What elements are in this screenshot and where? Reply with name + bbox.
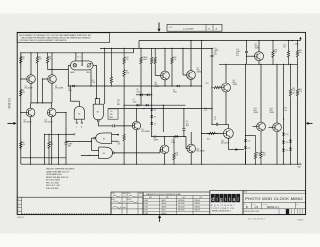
- ground net label: [298, 163, 302, 169]
- wire FF to E4 path: [66, 140, 91, 142]
- capacitor C18 label: [117, 100, 120, 106]
- junction Q8 em y124.3: [225, 124, 226, 125]
- junction x151.7 y94.8: [151, 94, 152, 95]
- diode D11: [244, 139, 250, 142]
- transistor Q7m: [187, 68, 202, 80]
- junction Q4 emitter bus: [51, 164, 52, 165]
- wire x58.6 drop: [58, 134, 60, 164]
- junction x172 rail: [171, 48, 172, 49]
- junction x292.4 rail C: [292, 40, 293, 41]
- wire E3 out: [91, 137, 93, 139]
- junction Q11 emitter bus: [191, 164, 192, 165]
- resistor R41 label: [263, 152, 266, 156]
- diode D8: [140, 94, 142, 97]
- junction FF path x66: [65, 141, 66, 142]
- junction rail Q2 col: [51, 52, 52, 53]
- junction x111.4 rail B: [111, 48, 112, 49]
- wire x104.7 drop: [104, 48, 106, 104]
- wire Q1 emitter drop: [30, 83, 32, 103]
- diode D16: [289, 140, 292, 142]
- diode D7: [175, 135, 177, 138]
- wire Q3 emitter: [30, 117, 32, 164]
- junction x212 y87.5: [211, 87, 212, 88]
- right fold-mark arrow: [306, 122, 313, 125]
- junction rail Q1 col: [30, 52, 31, 53]
- wire ground bus: [21, 163, 302, 165]
- junction Q3 emitter bus: [30, 164, 31, 165]
- wire Q13 collector: [260, 64, 262, 122]
- wire x183 drop: [182, 48, 184, 75]
- junction pin stub x66: [65, 134, 66, 135]
- junction rail R4: [37, 52, 38, 53]
- svg-text:ECO: ECO: [169, 27, 173, 29]
- wire diode stack x151.7: [151, 105, 153, 136]
- junction x297.5 rail C: [297, 40, 298, 41]
- junction x297.5 bus: [297, 164, 298, 165]
- junction x290.5 bus: [290, 164, 291, 165]
- junction x201.6 bus: [201, 164, 202, 165]
- resistor R4: [36, 53, 42, 103]
- wire rail C-B jog at x139: [138, 41, 140, 49]
- wire Q14 base stub: [269, 126, 273, 128]
- resistor R16: [171, 48, 177, 66]
- junction R7 top: [48, 134, 49, 135]
- resistor R3: [20, 53, 26, 67]
- resistor R27 label: [285, 108, 288, 112]
- junction Q6 emitter y86: [164, 85, 165, 86]
- transistor Q2: [48, 75, 63, 90]
- wire x297.5 lower: [297, 100, 299, 164]
- junction x201.6 y86: [201, 85, 202, 86]
- wire Q10 collector: [164, 136, 166, 145]
- gate E3 (NAND left): [94, 133, 112, 144]
- junction x58.6 y134.3: [58, 134, 59, 135]
- junction Q2 base x42.5: [42, 78, 43, 79]
- wire Q10 base link: [159, 149, 161, 153]
- capacitor C4: [113, 124, 114, 127]
- junction x44.6 y134.3: [44, 134, 45, 135]
- capacitor C8: [214, 117, 218, 126]
- junction x104.7 y86: [104, 85, 105, 86]
- wire Q13 base stub: [253, 126, 257, 128]
- junction x283.5 y119: [283, 118, 284, 119]
- junction lamp rail 1: [75, 52, 76, 53]
- wire x212 feed: [211, 57, 213, 124]
- wire C3 lower lead: [183, 131, 185, 137]
- resistor R14: [145, 48, 153, 66]
- wire E2 out to C4: [98, 125, 112, 127]
- junction Q14 rail D: [276, 64, 277, 65]
- wire Q12 emitter: [227, 138, 229, 149]
- junction Q6 collector rail: [164, 48, 165, 49]
- resistor R17: [206, 83, 222, 88]
- wire Q9 base: [247, 55, 255, 57]
- wire E2 top pin 1: [94, 99, 96, 105]
- junction x290.5 rail D: [290, 64, 291, 65]
- wire Q1 collector feed: [30, 53, 32, 75]
- resistor R11: [173, 136, 179, 164]
- junction Q5 collector top: [136, 108, 137, 109]
- wire x124.1 to bus: [123, 145, 125, 164]
- junction stack bottom: [151, 136, 152, 137]
- resistor R6 label: [92, 80, 95, 84]
- wire diode line y136.4: [152, 135, 186, 137]
- wire Q5 collector: [135, 109, 137, 122]
- junction lamp-cell mid: [82, 65, 83, 66]
- resistor R9b: [123, 66, 129, 80]
- resistor R25 label: [299, 50, 302, 54]
- diode D1 label: [133, 99, 137, 103]
- resistor R19: [254, 136, 256, 165]
- wire R19 feed: [246, 135, 256, 137]
- diode D12: [244, 146, 250, 149]
- junction x141 rail: [140, 48, 141, 49]
- wire x44.6 drop: [44, 134, 46, 164]
- wire Q10 emitter: [164, 154, 166, 165]
- transistor Q10: [154, 136, 169, 154]
- wire Q5 emitter: [135, 130, 137, 164]
- junction C15 rail C: [246, 40, 247, 41]
- wire E1 out drop: [69, 86, 71, 101]
- diode D4: [150, 108, 156, 111]
- wire diode line y105.2: [124, 104, 185, 106]
- gate E4 (NAND right): [99, 147, 115, 159]
- diode D1: [137, 104, 139, 107]
- junction x245.5 bus: [245, 164, 246, 165]
- junction Q8 rail D: [225, 64, 226, 65]
- wire x124.1 main drop: [123, 80, 125, 131]
- wire Q12 base line: [202, 132, 224, 134]
- wire E1 output horiz: [70, 100, 79, 102]
- transistor Q11: [187, 144, 205, 153]
- wire Q11 collector: [190, 132, 192, 144]
- wire lamp top lead 1: [75, 53, 77, 61]
- wire left rail drop: [20, 53, 22, 164]
- junction FF path x91.4: [91, 141, 92, 142]
- wire cross bus y102.9: [31, 102, 52, 104]
- wire Q14 emitter: [276, 132, 278, 165]
- junction x283.5 rail D: [283, 64, 284, 65]
- wire Q4 emitter: [51, 117, 53, 164]
- junction x141 y94.8: [140, 94, 141, 95]
- wire x245.5 column: [245, 64, 247, 164]
- wire x283.5 lower: [283, 131, 285, 164]
- junction x111.4 y86: [111, 85, 112, 86]
- junction x124.1 bus: [124, 164, 125, 165]
- junction R23 rail D: [272, 64, 273, 65]
- resistor R41: [260, 131, 262, 164]
- wire x172 drop: [171, 66, 173, 86]
- wire rail A-B jog: [133, 48, 135, 52]
- photocell V1: [86, 63, 91, 74]
- wire cross-couple x42.5: [42, 79, 44, 103]
- capacitor C4 boxed label: [108, 109, 118, 119]
- transistor Q9: [255, 44, 264, 61]
- wire Q12 output arrow: [228, 148, 244, 151]
- signature block: [111, 192, 143, 215]
- wire Q9 emitter: [258, 61, 260, 65]
- proprietary notice box: [17, 33, 109, 43]
- junction square E3 in1: [117, 134, 119, 136]
- junction Q4 emitter lower bus: [51, 157, 52, 158]
- wire rail B (center): [100, 47, 213, 49]
- junction Q13 rail D: [260, 64, 261, 65]
- wire lamp top lead 2: [81, 53, 83, 66]
- capacitor C15 label: [236, 49, 240, 57]
- wire x297.5 upper: [297, 41, 299, 48]
- wire Q3 base: [21, 112, 27, 114]
- diode D7 label: [172, 140, 176, 144]
- wire x151.7 drop: [151, 66, 153, 105]
- gate E2 (NAND down): [93, 104, 103, 122]
- junction E1 y86: [70, 85, 71, 86]
- junction R11 top: [173, 136, 174, 137]
- capacitor C3: [182, 121, 190, 130]
- wire y69.6 to lamp: [48, 69, 69, 71]
- diode D2: [146, 104, 148, 107]
- junction x172 y86: [171, 85, 172, 86]
- wire x245.5 lower: [245, 152, 247, 165]
- junction C3 bottom: [183, 136, 184, 137]
- junction x201.6 rail C: [201, 40, 202, 41]
- revision table: [17, 197, 111, 215]
- junction R11 bus: [173, 164, 174, 165]
- pin A of E1: [81, 119, 83, 128]
- wire E3 in1: [112, 134, 118, 136]
- diode D5: [150, 115, 156, 118]
- capacitor C15: [245, 51, 248, 52]
- junction rail R5: [47, 52, 48, 53]
- resistor R18 label: [204, 108, 208, 112]
- top fold-mark arrow: [158, 23, 161, 33]
- junction y108.6 x201: [201, 108, 202, 109]
- wire Q7m collector: [190, 41, 192, 71]
- junction x104.7 rail B: [104, 48, 105, 49]
- junction lamp left y86: [68, 85, 69, 86]
- wire Q10 base: [159, 148, 161, 150]
- wire C3 upper lead: [183, 109, 185, 129]
- wire lower bus (left): [21, 157, 66, 159]
- diode D13: [282, 133, 288, 136]
- junction Q5 emitter bus: [136, 164, 137, 165]
- wire Q8 emitter: [225, 92, 227, 124]
- diode D2b: [72, 85, 74, 88]
- wire x212 feed upper: [211, 48, 213, 55]
- junction Q7m rail C: [190, 40, 191, 41]
- wire y134.3 link: [45, 133, 66, 135]
- diode D6: [150, 122, 156, 125]
- junction x141 y105.2: [140, 105, 141, 106]
- wire E2 output: [97, 122, 99, 126]
- resistor C16: [283, 41, 290, 65]
- junction y108.6 x163: [163, 108, 164, 109]
- transistor Q5c: [132, 121, 149, 133]
- resistor R20: [207, 132, 218, 140]
- junction x212 y124.3: [211, 124, 212, 125]
- photo module CL1 enclosure: [70, 61, 93, 70]
- resistor R15: [154, 48, 156, 66]
- svg-text:MM02: MM02: [8, 98, 12, 109]
- wire x290.5 lower: [290, 137, 292, 164]
- junction x44.6 bus: [44, 164, 45, 165]
- wire E3 out drop: [90, 138, 92, 150]
- wire x66 drop: [65, 113, 67, 165]
- diode D2b label: [68, 88, 72, 92]
- wire Q8 collector: [225, 64, 227, 83]
- junction x124.1 base line: [124, 125, 125, 126]
- transistor Q1: [25, 75, 36, 90]
- wire Q11 base drop: [185, 136, 187, 148]
- wire Q5 base feed: [155, 75, 161, 77]
- svg-text:DRB 102: DRB 102: [17, 217, 24, 219]
- wire E4 in2: [81, 154, 99, 156]
- capacitor C14: [211, 48, 220, 57]
- junction Q9 rail C: [258, 40, 259, 41]
- wire Q3 collector: [30, 103, 32, 108]
- junction Q7m emitter y86: [190, 85, 191, 86]
- wire Q11 emitter: [190, 153, 192, 164]
- diode D3 label: [173, 90, 177, 94]
- wire Q2 collector feed: [51, 53, 53, 75]
- wire E1 output: [78, 101, 80, 106]
- diode D17: [289, 148, 292, 150]
- junction lamp rail 2: [82, 52, 83, 53]
- terminal pin F: [66, 134, 75, 136]
- wire cell right lead: [93, 64, 96, 66]
- resistor R21 label: [292, 88, 296, 94]
- wire diode line y94.8: [136, 94, 152, 96]
- junction y108.6 x144: [143, 108, 144, 109]
- junction x212 rail B: [211, 48, 212, 49]
- junction x124.1 y105.2: [124, 105, 125, 106]
- junction C16 rail C: [288, 40, 289, 41]
- junction cell bottom y86: [90, 85, 91, 86]
- capacitor C6: [65, 143, 68, 144]
- wire Q7m emitter: [190, 79, 192, 86]
- capacitor C6 label: [68, 141, 74, 147]
- junction x283.5 bus: [283, 164, 284, 165]
- junction y108.6 x212: [211, 108, 212, 109]
- junction x58.6 bus: [58, 164, 59, 165]
- junction x201.6 y133.4: [201, 133, 202, 134]
- wire C4 to Q5 base: [115, 125, 133, 127]
- svg-text:1-5A Ph: 1-5A Ph: [297, 219, 304, 222]
- junction E4 in2: [89, 155, 90, 156]
- resistor R19 label: [257, 152, 260, 156]
- junction x66 bus: [65, 164, 66, 165]
- junction y102.9 x37.4: [37, 102, 38, 103]
- wire x141 drop: [140, 66, 142, 105]
- transistor Q8: [222, 80, 238, 92]
- ECO revision box: [167, 24, 222, 31]
- wire x297.5 mid: [297, 60, 299, 85]
- junction Q3 base feed: [20, 112, 21, 113]
- wire x283.5 column: [283, 64, 285, 131]
- wire Q4 base line: [56, 112, 66, 114]
- diode D15: [282, 149, 288, 152]
- resistor R25: [296, 47, 298, 60]
- wire long x201.6: [201, 41, 203, 165]
- wire lamp left drop: [67, 65, 69, 86]
- svg-text:12: 12: [208, 29, 211, 31]
- junction Q3 emitter lower bus: [30, 157, 31, 158]
- resistor R13: [140, 48, 146, 66]
- wire Q14 collector: [276, 64, 278, 123]
- wire C15 bottom: [246, 53, 248, 65]
- resistor R10: [117, 131, 125, 146]
- junction Q9 rail D: [258, 64, 259, 65]
- wire Q2 base stub: [43, 78, 48, 80]
- junction C16 rail D: [288, 64, 289, 65]
- junction x245.5 rail D: [245, 64, 246, 65]
- left fold-mark arrow: [8, 122, 17, 125]
- wire +10V rail C (right): [139, 40, 301, 42]
- title block: [243, 191, 306, 215]
- junction x183 rail B: [182, 48, 183, 49]
- wire x290.5 upper: [290, 64, 292, 85]
- DEC digital logo block: [210, 191, 243, 215]
- wire Q11 base stub: [185, 148, 188, 150]
- diode D9: [147, 94, 149, 97]
- junction x163.3 y105.2: [163, 105, 164, 106]
- wire E3-E4 link: [91, 149, 98, 151]
- junction x245.5 y135.5: [245, 135, 246, 136]
- resistor R12: [123, 48, 129, 66]
- resistor R7: [48, 134, 54, 164]
- wire cell bottom lead: [90, 70, 92, 86]
- wire x155.2 drop: [154, 66, 156, 76]
- junction x66 top: [65, 112, 66, 113]
- wire photo signal y86: [68, 85, 201, 87]
- gate E1 (OR up): [74, 107, 84, 120]
- junction R19 bus: [255, 164, 256, 165]
- wire E2 top pin 2: [99, 99, 101, 105]
- junction C15-Q9 base: [246, 56, 247, 57]
- junction C3 top: [183, 108, 184, 109]
- wire +10V rail A (left): [21, 52, 134, 54]
- junction x151.7 y105.2: [151, 105, 152, 106]
- wire Q7m base stub: [183, 74, 187, 76]
- resistor R24 label: [299, 89, 302, 93]
- transistor Q3: [24, 108, 35, 123]
- resistor R21: [289, 85, 291, 100]
- junction x124.1 rail: [124, 48, 125, 49]
- transistor Q14: [270, 108, 282, 132]
- junction Q10 emitter bus: [164, 164, 165, 165]
- transistor Q4: [45, 108, 57, 123]
- junction Q1 base feed: [20, 78, 21, 79]
- wire x163.3 drop: [162, 105, 164, 132]
- resistor R23: [272, 41, 278, 65]
- wire Q6 collector: [164, 48, 166, 71]
- diode D3: [177, 85, 179, 88]
- wire Q9 collector: [258, 41, 260, 52]
- junction rail-left: [20, 52, 21, 53]
- wire Q6 emitter: [164, 80, 166, 86]
- wire C15 top: [246, 41, 248, 52]
- bottom fold-mark arrow: [158, 215, 161, 222]
- lamp L1: [70, 64, 76, 74]
- svg-text:A: A: [216, 28, 218, 31]
- resistor R24: [296, 85, 298, 100]
- wire E4 output: [114, 152, 160, 154]
- junction R7 bus: [48, 164, 49, 165]
- junction y102.9 x42.5: [42, 102, 43, 103]
- transistor Q13: [254, 108, 266, 131]
- diode D14: [282, 141, 288, 144]
- transistor Q12: [221, 129, 233, 145]
- wire E2 top link: [95, 98, 99, 100]
